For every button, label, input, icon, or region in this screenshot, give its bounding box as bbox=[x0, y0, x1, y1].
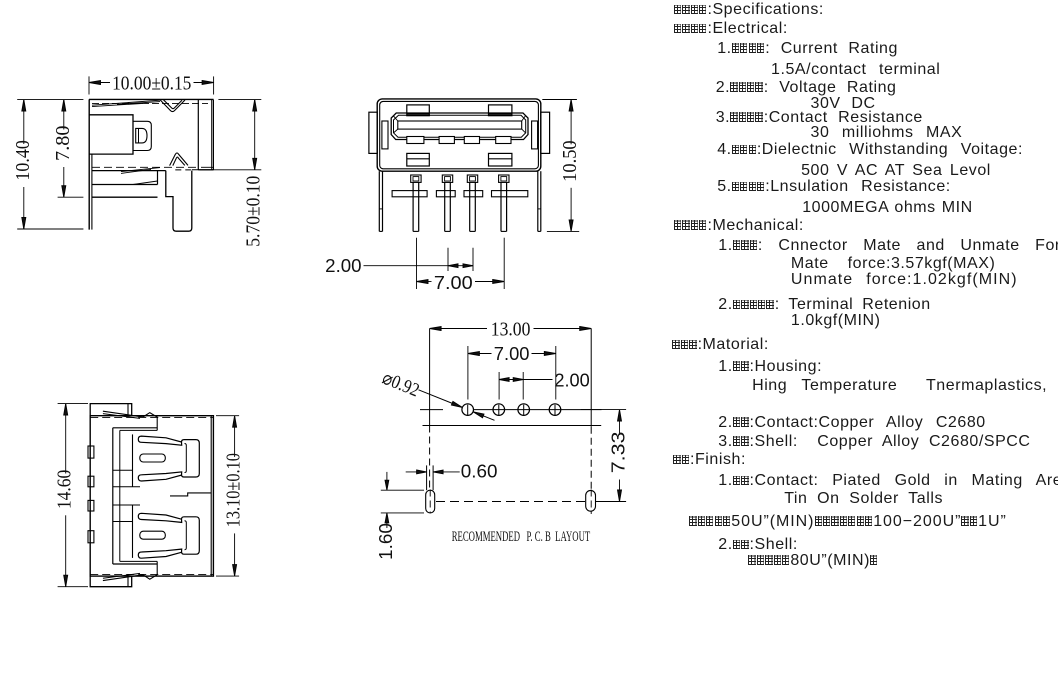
pcb: oval pads bbox=[426, 490, 435, 513]
front view: tongue bar bbox=[398, 121, 522, 129]
side view: through-hole leg bbox=[166, 171, 192, 232]
top view: contact fork lower bbox=[138, 513, 181, 522]
top view: mid split line bbox=[170, 493, 211, 496]
dim 5.70±0.10 bbox=[200, 100, 265, 247]
svg-text:10.50: 10.50 bbox=[559, 140, 581, 182]
top view: inner housing channels bbox=[112, 428, 114, 564]
svg-text:⌀0.92: ⌀0.92 bbox=[379, 368, 422, 402]
top view: crimp zigzag top bbox=[103, 411, 158, 417]
dim 0.60 bbox=[406, 461, 498, 491]
svg-text:10.40: 10.40 bbox=[12, 140, 34, 180]
top view: crimp zigzag bottom bbox=[103, 574, 158, 580]
svg-text:2.00: 2.00 bbox=[554, 370, 589, 391]
svg-text:0.60: 0.60 bbox=[461, 461, 498, 482]
svg-text:7.00: 7.00 bbox=[434, 272, 473, 293]
front view: lower shell windows bbox=[407, 153, 430, 166]
side view: left protrusion block bbox=[89, 115, 133, 154]
svg-text:5.70±0.10: 5.70±0.10 bbox=[243, 176, 265, 247]
svg-text:2.00: 2.00 bbox=[325, 255, 361, 276]
side view: lower V spring bbox=[170, 153, 188, 166]
dim 2.00 front bbox=[325, 248, 473, 277]
front view: contact windows (bottom of cavity) bbox=[407, 137, 424, 144]
svg-text:RECOMMENDED P. C. B LAYOUT: RECOMMENDED P. C. B LAYOUT bbox=[452, 529, 591, 545]
svg-text:13.00: 13.00 bbox=[491, 319, 531, 341]
specs text block bbox=[674, 2, 824, 18]
front view: shell skirt sides bbox=[378, 171, 380, 231]
dim 7.00 pcb bbox=[468, 343, 556, 400]
svg-text:1.60: 1.60 bbox=[375, 523, 396, 560]
svg-text:7.00: 7.00 bbox=[494, 343, 530, 364]
side view: connector body outline bbox=[89, 99, 214, 229]
front view: pin shoulder plates bbox=[392, 191, 427, 197]
dim 7.33 bbox=[581, 410, 629, 502]
dim 14.60 bbox=[54, 404, 88, 587]
svg-text:14.60: 14.60 bbox=[54, 470, 76, 509]
svg-text:7.33: 7.33 bbox=[608, 432, 629, 474]
pcb: 4 drill pads bbox=[462, 404, 474, 416]
dim 10.50 bbox=[542, 100, 581, 232]
top view: pin end slots bbox=[88, 446, 94, 458]
side view: shell bottom lines bbox=[92, 166, 196, 168]
top view: outer body bbox=[90, 416, 213, 576]
front view: USB cavity bbox=[391, 113, 528, 140]
label 0.92 leader bbox=[379, 368, 494, 421]
front view: 4 pins bbox=[411, 175, 421, 182]
dim 13.10±0.10 bbox=[216, 416, 245, 576]
top view: mounting tabs bbox=[90, 404, 132, 416]
front view: side ears bbox=[369, 112, 377, 153]
front view: outer shell bbox=[377, 99, 541, 171]
top view: dashed edge lines bbox=[90, 416, 213, 418]
dim 10.40 bbox=[12, 100, 84, 229]
svg-text:10.00±0.15: 10.00±0.15 bbox=[112, 73, 191, 95]
dim 2.00 pcb bbox=[499, 370, 590, 400]
dim 13.00 bbox=[430, 319, 592, 341]
top view: contact fork upper bbox=[138, 436, 181, 445]
dim 7.00 front bbox=[417, 238, 505, 293]
side view: upper V spring bbox=[160, 100, 185, 112]
side view: latch detail bbox=[133, 121, 151, 150]
side view: middle step block bbox=[92, 184, 158, 186]
pcb: dashed centerline between oval pads bbox=[436, 501, 585, 503]
dim 7.80 bbox=[52, 100, 84, 198]
svg-text:7.80: 7.80 bbox=[52, 125, 74, 161]
pcb: outline verticals bbox=[429, 329, 431, 426]
front view: top shell windows bbox=[407, 105, 430, 116]
dim 1.60 bbox=[375, 472, 424, 560]
side view: right shell plate bbox=[197, 99, 199, 169]
svg-text:13.10±0.10: 13.10±0.10 bbox=[223, 453, 245, 527]
pcb: front edge line bbox=[423, 425, 602, 427]
dim 10.00±0.15 bbox=[89, 73, 214, 95]
